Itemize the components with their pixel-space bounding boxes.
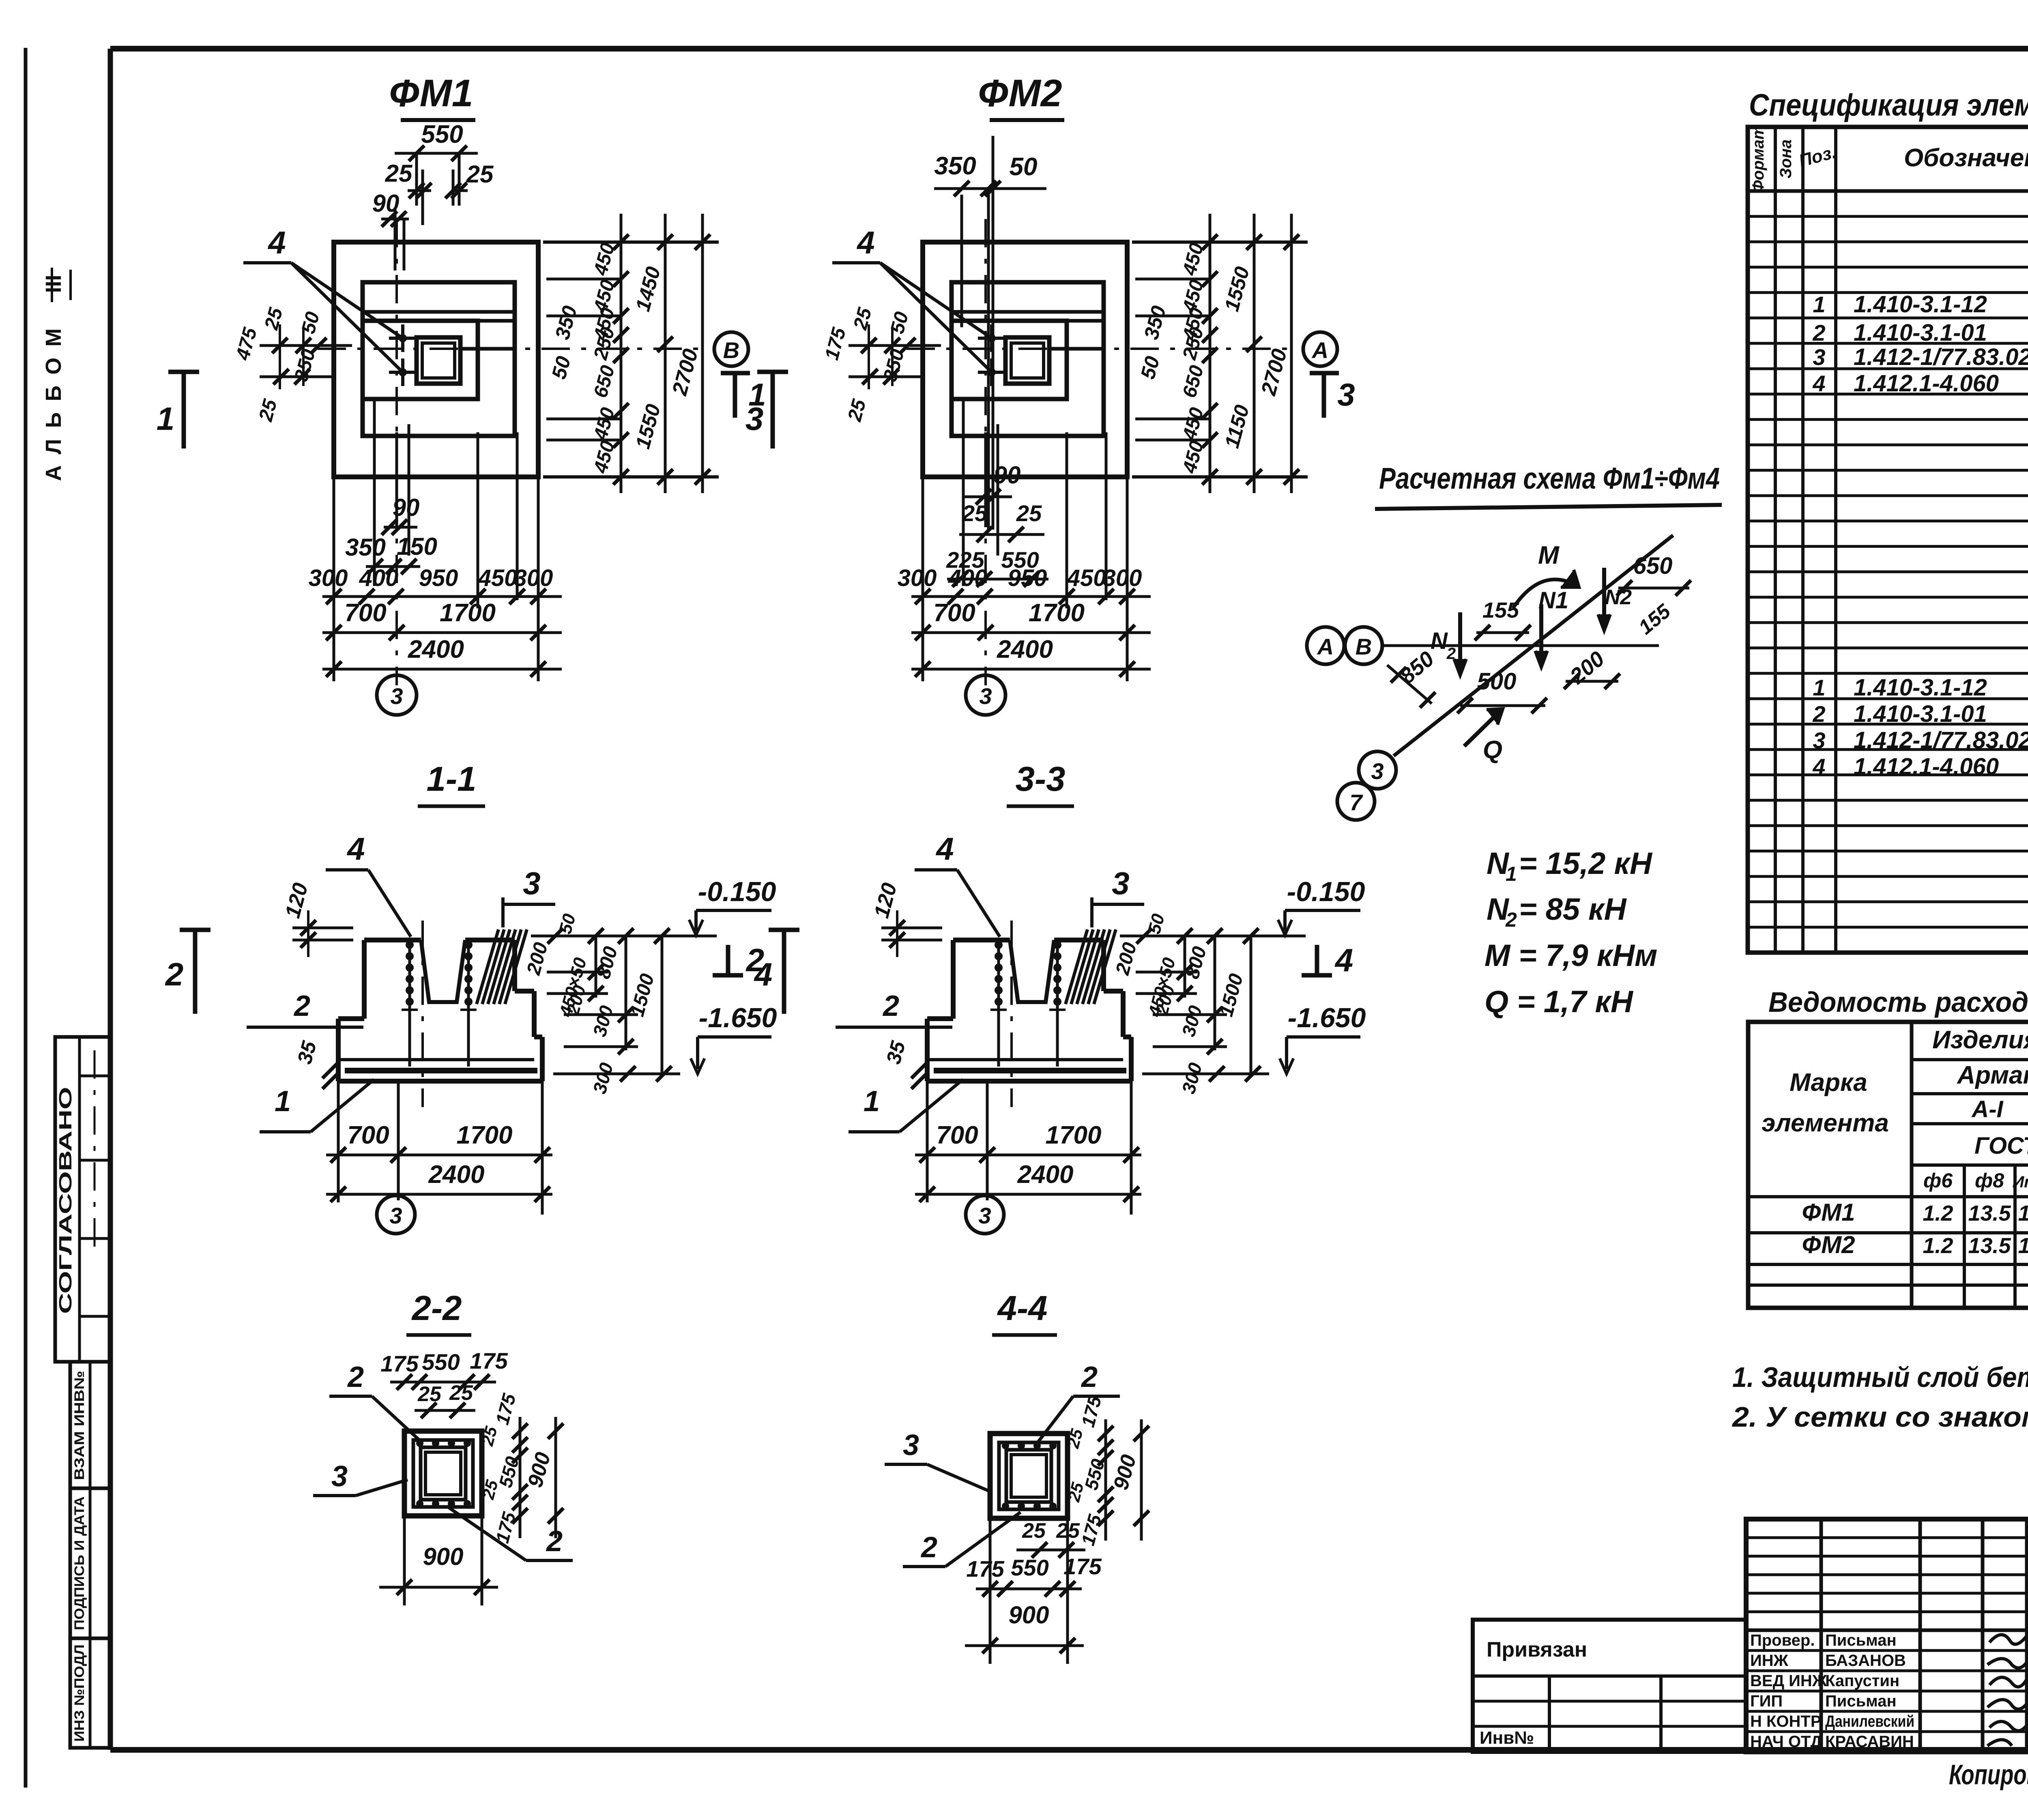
spec rows ФМ2 group — [1812, 597, 2028, 901]
svg-text:2: 2 — [1505, 908, 1517, 931]
svg-text:25: 25 — [385, 160, 413, 187]
svg-text:25: 25 — [1016, 500, 1042, 526]
section 4-4 bottom overall dimension — [965, 1518, 1084, 1664]
plan ФМ2 right section mark — [1310, 373, 1355, 418]
calc scheme axis circles 3 and 7 — [1337, 751, 1396, 820]
svg-text:2400: 2400 — [408, 635, 464, 663]
svg-text:4: 4 — [754, 956, 773, 992]
svg-text:25: 25 — [1022, 1519, 1046, 1543]
svg-text:2. У сетки со знаком* верхний: 2. У сетки со знаком* верхний стержень с… — [1732, 1401, 2028, 1433]
svg-text:175: 175 — [1063, 1554, 1102, 1579]
svg-text:4: 4 — [1812, 371, 1825, 396]
title block document number ТП 902-5-50.88 — [2027, 1536, 2028, 1631]
svg-text:Формат: Формат — [1749, 125, 1767, 193]
svg-text:1700: 1700 — [440, 599, 496, 627]
svg-text:25: 25 — [962, 500, 988, 526]
svg-text:2: 2 — [882, 990, 899, 1022]
plan ФМ1 title — [389, 72, 475, 120]
svg-text:Провер.: Провер. — [1750, 1631, 1815, 1649]
svg-text:элемента: элемента — [1762, 1109, 1889, 1137]
svg-text:ГИП: ГИП — [1750, 1692, 1783, 1710]
section 3-3 centre line — [1010, 921, 1013, 1107]
svg-text:2: 2 — [1812, 701, 1825, 727]
section 3-3 bottom mesh (item 1) heavy line — [927, 1060, 1126, 1071]
svg-text:300: 300 — [1103, 565, 1142, 591]
section 3-3 right level mark -0.150 — [1278, 876, 1365, 935]
svg-text:7: 7 — [1349, 790, 1363, 815]
plan ФМ2 right dimension lines — [1132, 214, 1308, 493]
svg-text:3: 3 — [523, 865, 540, 901]
section 3-3 hatched mesh item 3 — [1066, 897, 1116, 1004]
calc scheme moment M arc — [1513, 541, 1579, 608]
svg-text:M = 7,9 кНм: M = 7,9 кНм — [1484, 938, 1657, 973]
svg-text:4-4: 4-4 — [997, 1289, 1048, 1328]
svg-text:1.410-3.1-01: 1.410-3.1-01 — [1854, 320, 1987, 346]
plan ФМ1 right dimension lines — [543, 214, 719, 493]
svg-text:1.412.1-4.060: 1.412.1-4.060 — [1854, 370, 1999, 397]
calc scheme force N2 right arrow — [1598, 568, 1632, 631]
spec rows ФМ1 group — [1812, 211, 2028, 519]
svg-text:900: 900 — [423, 1543, 463, 1570]
plan ФМ1 bottom projection lines — [334, 399, 538, 681]
svg-text:Копировал: Коршунова 23091-03: Копировал: Коршунова 23091-03 15Формат·А… — [1949, 1759, 2028, 1790]
section 1-1 title — [418, 760, 485, 806]
calc scheme diagonal member — [1394, 535, 1673, 756]
svg-text:Q = 1,7 кН: Q = 1,7 кН — [1484, 985, 1634, 1019]
svg-text:90: 90 — [393, 494, 420, 521]
svg-text:350: 350 — [934, 152, 976, 180]
section 4-4 column cage squares — [990, 1434, 1068, 1518]
calculation scheme title — [1375, 461, 1722, 509]
section 3-3 title — [1007, 760, 1074, 806]
calc scheme baseline (horizontal axis) — [1382, 644, 1659, 647]
plan ФМ2 centre lines — [907, 219, 1298, 685]
svg-text:Н КОНТР.: Н КОНТР. — [1750, 1713, 1824, 1730]
svg-text:Q: Q — [1483, 736, 1502, 764]
svg-text:Зона: Зона — [1777, 140, 1795, 179]
svg-text:ВЕД ИНЖ: ВЕД ИНЖ — [1750, 1672, 1827, 1690]
load values text block — [1484, 846, 1657, 1019]
svg-text:14,7: 14,7 — [2018, 1201, 2028, 1225]
svg-text:Спецификация элементов монолит: Спецификация элементов монолитных фундам… — [1749, 88, 2028, 122]
title block outer box — [1746, 1519, 2028, 1752]
svg-text:1: 1 — [1813, 675, 1825, 700]
svg-text:550: 550 — [1011, 1555, 1048, 1580]
svg-text:4: 4 — [1812, 754, 1825, 779]
svg-text:= 15,2 кН: = 15,2 кН — [1519, 846, 1653, 881]
plan ФМ2 embedded item MH1 anchor crosses — [978, 324, 1005, 386]
svg-text:1.410-3.1-12: 1.410-3.1-12 — [1854, 291, 1987, 318]
svg-text:Данилевский: Данилевский — [1825, 1713, 1914, 1730]
plan ФМ1 bottom dimension rows — [309, 494, 562, 677]
section 3-3 left dim 120 — [870, 880, 942, 957]
svg-text:2: 2 — [293, 990, 310, 1022]
svg-text:КРАСАВИН: КРАСАВИН — [1825, 1733, 1914, 1751]
svg-text:-1.650: -1.650 — [699, 1002, 777, 1033]
svg-text:N: N — [1431, 628, 1448, 654]
svg-text:700: 700 — [344, 599, 386, 627]
svg-text:1-1: 1-1 — [427, 760, 477, 798]
svg-text:175: 175 — [966, 1556, 1004, 1582]
svg-text:-0.150: -0.150 — [698, 876, 776, 907]
album label АЛЬБОМ III (rotated) — [41, 268, 71, 481]
plan ФМ2 title — [978, 72, 1064, 120]
svg-text:4: 4 — [856, 225, 874, 260]
svg-text:3: 3 — [390, 683, 403, 709]
svg-text:3: 3 — [1371, 758, 1384, 784]
svg-text:ГОСТ 5781-82: ГОСТ 5781-82 — [1974, 1133, 2028, 1159]
svg-text:Обозначение: Обозначение — [1904, 144, 2028, 172]
svg-text:3: 3 — [978, 1203, 991, 1228]
svg-text:25: 25 — [449, 1381, 473, 1405]
section 2-2 top dimensions — [380, 1348, 508, 1418]
svg-text:1.2: 1.2 — [1923, 1234, 1953, 1258]
plan ФМ2 bottom dimension rows — [898, 461, 1151, 677]
section 3-3 right dimension block — [1112, 912, 1306, 1096]
steel table data rows — [1802, 1199, 2028, 1258]
section 4-4 title — [992, 1289, 1057, 1335]
section 1-1 leader label 3 — [503, 865, 555, 904]
svg-text:2400: 2400 — [997, 635, 1053, 663]
section 4-4 right dimensions — [1063, 1393, 1149, 1548]
svg-text:А: А — [1311, 337, 1328, 363]
svg-text:3: 3 — [1337, 377, 1355, 412]
svg-text:БАЗАНОВ: БАЗАНОВ — [1825, 1652, 1906, 1670]
section 3-3 vertical mesh bars — [990, 940, 1066, 1067]
svg-text:300: 300 — [514, 565, 553, 591]
svg-text:500: 500 — [1477, 668, 1517, 695]
svg-text:1. Защитный слой бетона·нижних: 1. Защитный слой бетона·нижних сеток - 3… — [1732, 1361, 2028, 1393]
svg-text:1.412-1/77.83.020: 1.412-1/77.83.020 — [1854, 727, 2028, 753]
plan ФМ1 grid axis circle — [714, 332, 748, 366]
svg-text:1: 1 — [1506, 863, 1517, 885]
plan ФМ1 right section mark — [721, 373, 766, 418]
plan ФМ1 embedded item MH1 anchor crosses — [389, 324, 417, 386]
section 3-3 bottom leader label 1 — [849, 1080, 963, 1132]
section 1-1 centre line — [421, 921, 424, 1107]
СОГЛАСОВАНО stamp box — [55, 1037, 110, 1362]
section 3-3 footing outline — [927, 940, 1131, 1081]
svg-text:Инв№: Инв№ — [1480, 1728, 1534, 1748]
svg-text:ВЗАМ ИНВ№: ВЗАМ ИНВ№ — [72, 1371, 87, 1480]
svg-text:1700: 1700 — [1046, 1121, 1102, 1149]
svg-text:2: 2 — [1812, 320, 1825, 346]
svg-text:3: 3 — [903, 1429, 919, 1462]
plan ФМ1 top dimension lines — [372, 120, 494, 270]
section 1-1 footing outline — [338, 940, 542, 1081]
svg-text:1700: 1700 — [457, 1121, 513, 1149]
plan ФМ1 left section mark — [157, 370, 199, 449]
section 3-3 right level mark -1.650 — [1280, 1002, 1366, 1074]
svg-text:1.2: 1.2 — [1923, 1201, 1953, 1225]
svg-text:1.412-1/77.83.020: 1.412-1/77.83.020 — [1854, 344, 2028, 370]
svg-text:90: 90 — [994, 461, 1021, 489]
svg-text:450: 450 — [1067, 565, 1106, 591]
section 1-1 bottom dimensions — [326, 1081, 552, 1215]
plan ФМ2 middle step square — [952, 282, 1104, 436]
calc scheme force N1 arrow — [1535, 587, 1568, 667]
svg-text:2: 2 — [1081, 1361, 1098, 1393]
svg-text:175: 175 — [470, 1348, 508, 1374]
section 2-2 column cage squares — [404, 1431, 482, 1516]
plan ФМ1 column section (double square) — [417, 337, 515, 384]
section 1-1 hatched mesh item 3 — [477, 897, 527, 1004]
svg-text:2: 2 — [920, 1531, 937, 1564]
svg-text:N1: N1 — [1538, 587, 1568, 614]
svg-text:ПОДПИСЬ И ДАТА: ПОДПИСЬ И ДАТА — [72, 1496, 87, 1630]
svg-text:ФМ2: ФМ2 — [1802, 1231, 1855, 1258]
svg-text:3-3: 3-3 — [1016, 760, 1066, 798]
plan ФМ2 footing outline (outer square) — [923, 242, 1127, 477]
svg-text:-0.150: -0.150 — [1287, 876, 1365, 907]
svg-text:СОГЛАСОВАНО: СОГЛАСОВАНО — [56, 1087, 75, 1314]
section 2-2 right dimensions — [477, 1391, 563, 1545]
svg-text:Письман: Письман — [1825, 1692, 1897, 1710]
kopiroval note — [1949, 1759, 2028, 1790]
svg-text:13.5: 13.5 — [1968, 1234, 2011, 1258]
calc scheme dimensions — [1387, 553, 1691, 713]
svg-text:А-I: А-I — [1971, 1096, 2004, 1122]
calc scheme axis circles А and В — [1307, 627, 1382, 664]
svg-text:50: 50 — [1010, 153, 1038, 181]
steel consumption table title — [1768, 986, 2028, 1018]
plan ФМ2 leader to item 4 — [832, 225, 992, 372]
section 3-3 left dim 35 — [882, 1038, 927, 1089]
plan ФМ1 bottom grid axis circle — [377, 675, 417, 715]
plan ФМ1 mesh C2 square — [363, 321, 478, 399]
svg-text:3: 3 — [979, 683, 992, 709]
svg-text:1: 1 — [864, 1085, 880, 1118]
svg-text:3: 3 — [331, 1460, 348, 1493]
svg-text:= 85 кН: = 85 кН — [1519, 892, 1627, 927]
svg-text:М: М — [1538, 541, 1560, 569]
svg-text:4: 4 — [935, 831, 954, 867]
svg-text:4: 4 — [1334, 942, 1353, 978]
svg-text:III: III — [41, 275, 66, 293]
plan ФМ2 column section (double square) — [1005, 337, 1104, 384]
section 1-1 vertical mesh bars — [402, 940, 477, 1067]
svg-text:Привязан: Привязан — [1487, 1638, 1587, 1661]
svg-text:400: 400 — [948, 565, 988, 591]
svg-text:ф8: ф8 — [1975, 1169, 2004, 1192]
svg-text:ФМ1: ФМ1 — [389, 72, 473, 115]
section 3-3 leader label 4 — [915, 831, 1000, 937]
steel table headers — [1762, 1026, 2028, 1192]
plan ФМ2 bottom projection lines — [923, 399, 1127, 681]
svg-text:Письман: Письман — [1825, 1631, 1897, 1649]
svg-text:175: 175 — [380, 1351, 419, 1376]
notes text — [1732, 1361, 2028, 1433]
svg-text:900: 900 — [1008, 1601, 1049, 1629]
svg-text:13.5: 13.5 — [1968, 1201, 2011, 1225]
svg-text:Капустин: Капустин — [1825, 1672, 1899, 1690]
svg-text:1: 1 — [157, 401, 175, 437]
svg-text:2-2: 2-2 — [411, 1289, 462, 1328]
section 3-3 right cut mark 4 — [1302, 942, 1353, 978]
svg-text:2400: 2400 — [1017, 1161, 1074, 1189]
svg-text:950: 950 — [419, 565, 458, 591]
section 3-3 bottom grid axis circle — [966, 1195, 1004, 1234]
section 3-3 bottom dimensions — [915, 1081, 1141, 1215]
svg-text:2: 2 — [1446, 645, 1456, 663]
section 1-1 right cut mark 2 — [713, 942, 764, 978]
svg-text:4: 4 — [267, 225, 286, 260]
svg-text:Изделия арматурные: Изделия арматурные — [1932, 1026, 2028, 1054]
section 1-1 right level mark -0.150 — [689, 876, 776, 935]
svg-text:950: 950 — [1008, 565, 1047, 591]
svg-text:700: 700 — [347, 1121, 389, 1149]
svg-text:1.410-3.1-01: 1.410-3.1-01 — [1854, 701, 1987, 727]
section 4-4 top dimensions — [966, 1519, 1102, 1597]
section 1-1 bottom grid axis circle — [377, 1195, 415, 1234]
svg-text:2400: 2400 — [428, 1161, 485, 1189]
svg-text:300: 300 — [898, 565, 937, 591]
plan ФМ1 footing outline (outer square) — [334, 242, 538, 477]
svg-text:3: 3 — [1813, 728, 1825, 753]
section 2-2 bottom overall dimension — [379, 1516, 498, 1605]
specification table title — [1749, 88, 2028, 122]
svg-text:1.412.1-4.060: 1.412.1-4.060 — [1854, 753, 1999, 780]
svg-text:1: 1 — [275, 1085, 291, 1118]
svg-text:ф6: ф6 — [1923, 1169, 1953, 1192]
section 4-4 leader labels — [885, 1361, 1120, 1567]
steel table grid — [1748, 1022, 2028, 1308]
title block left small grid — [1746, 1519, 2027, 1752]
svg-text:Итого: Итого — [2012, 1173, 2028, 1191]
section 1-1 left dim 120 — [281, 880, 353, 957]
inventory stamp column (ВЗАМ ИНВ / ПОДПИСЬ И ДАТА / ИНВ № ПОДЛ) — [70, 1362, 110, 1748]
plan ФМ2 top dimension lines — [934, 136, 1046, 530]
svg-text:НАЧ ОТД: НАЧ ОТД — [1750, 1733, 1822, 1751]
svg-text:700: 700 — [936, 1121, 978, 1149]
plan ФМ2 bottom grid axis circle — [966, 675, 1005, 715]
plan ФМ1 centre lines — [318, 219, 709, 685]
svg-text:А Л Ь Б О М: А Л Ь Б О М — [41, 326, 66, 481]
section 3-3 leader label 3 — [1092, 865, 1144, 904]
svg-text:Арматура класса: Арматура класса — [1956, 1061, 2028, 1089]
svg-text:2: 2 — [347, 1361, 364, 1393]
svg-text:550: 550 — [421, 120, 463, 148]
svg-text:450: 450 — [478, 565, 518, 591]
section 1-1 right level mark -1.650 — [691, 1002, 777, 1074]
calc scheme force N2 left arrow — [1431, 612, 1466, 675]
plan ФМ2 left section mark — [745, 370, 788, 449]
svg-text:14,7: 14,7 — [2018, 1234, 2028, 1258]
plan ФМ1 leader to item 4 — [243, 225, 403, 372]
svg-text:Марка: Марка — [1790, 1069, 1867, 1097]
svg-text:Расчетная схема Фм1÷Фм4: Расчетная схема Фм1÷Фм4 — [1379, 461, 1720, 495]
svg-text:350: 350 — [345, 534, 386, 561]
svg-text:ИНЗ №ПОДЛ: ИНЗ №ПОДЛ — [72, 1644, 87, 1742]
svg-text:-1.650: -1.650 — [1288, 1002, 1366, 1033]
binding block Привязан — [1473, 1620, 1746, 1752]
svg-text:1700: 1700 — [1029, 599, 1085, 627]
svg-text:Ведомость расхода стали на эле: Ведомость расхода стали на элемент, кг — [1768, 986, 2028, 1018]
section 1-1 left dim 35 — [293, 1038, 338, 1089]
svg-text:В: В — [1356, 634, 1372, 659]
plan ФМ2 mesh C1 upper edge double line — [952, 312, 1104, 321]
svg-text:25: 25 — [466, 161, 494, 188]
svg-text:3: 3 — [1112, 865, 1129, 901]
section 2-2 leader labels — [313, 1361, 573, 1560]
plan ФМ2 grid axis circle — [1303, 332, 1337, 366]
svg-text:А: А — [1317, 634, 1334, 659]
plan ФМ1 middle step square — [363, 282, 515, 436]
svg-text:400: 400 — [359, 565, 399, 591]
svg-text:ФМ2: ФМ2 — [978, 72, 1062, 115]
svg-text:1: 1 — [1813, 292, 1825, 317]
svg-text:4: 4 — [346, 831, 365, 867]
svg-text:700: 700 — [933, 599, 975, 627]
section 1-1 bottom mesh (item 1) heavy line — [338, 1060, 537, 1071]
svg-text:2: 2 — [165, 956, 184, 992]
section cut mark 4 (left of section 3-3) — [754, 930, 799, 1014]
svg-text:ИНЖ: ИНЖ — [1750, 1652, 1789, 1670]
specification table grid — [1748, 127, 2028, 953]
plan ФМ1 mesh C1 upper edge double line — [363, 312, 515, 321]
svg-text:300: 300 — [309, 565, 348, 591]
svg-text:В: В — [723, 337, 739, 363]
svg-text:25: 25 — [417, 1382, 442, 1406]
specification table headers — [1749, 125, 2028, 193]
svg-text:650: 650 — [1633, 553, 1673, 579]
svg-text:3: 3 — [745, 401, 764, 437]
section 2-2 title — [406, 1289, 471, 1335]
svg-text:3: 3 — [389, 1203, 402, 1228]
title block signature rows — [1750, 1631, 2028, 1751]
section 1-1 bottom leader label 1 — [260, 1080, 374, 1132]
section 1-1 leader label 4 — [326, 831, 411, 937]
svg-text:3: 3 — [1813, 344, 1825, 370]
svg-text:550: 550 — [422, 1349, 460, 1375]
svg-text:1.410-3.1-12: 1.410-3.1-12 — [1854, 674, 1987, 701]
svg-text:150: 150 — [397, 533, 437, 560]
section 1-1 left leader label 2 — [247, 990, 363, 1027]
section cut mark 2 (left of section 1-1) — [165, 930, 211, 1014]
plan ФМ2 left dimension labels — [821, 305, 941, 424]
sheet left edge line — [24, 48, 28, 1788]
section 1-1 right dimension block — [523, 912, 717, 1096]
plan ФМ1 left dimension labels — [232, 305, 352, 424]
calc scheme shear Q arrow — [1464, 709, 1503, 764]
plan ФМ2 mesh C2 square — [952, 321, 1067, 399]
section 3-3 left leader label 2 — [836, 990, 952, 1027]
svg-text:155: 155 — [1482, 598, 1519, 622]
svg-text:2: 2 — [546, 1525, 563, 1558]
svg-text:ФМ1: ФМ1 — [1802, 1199, 1855, 1226]
